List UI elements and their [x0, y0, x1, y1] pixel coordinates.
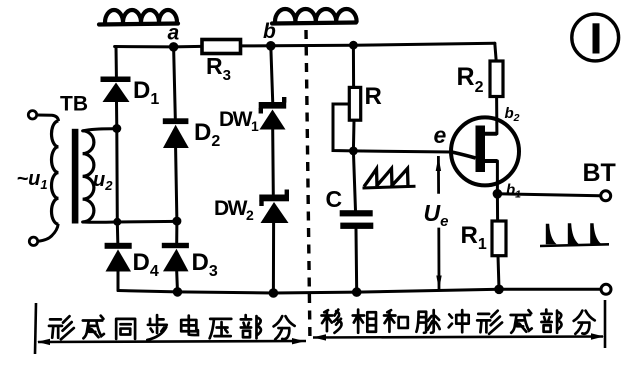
zener DW2	[214, 190, 289, 224]
BT terminal	[583, 159, 616, 201]
svg-text:b2: b2	[505, 105, 520, 124]
wire secondary top to column	[83, 129, 117, 131]
resistor R	[349, 83, 382, 120]
sawtooth waveform	[364, 169, 408, 187]
terminal bottom-left	[29, 237, 37, 245]
svg-text:R: R	[365, 83, 382, 110]
svg-text:R3: R3	[206, 53, 231, 84]
wire R wiper bracket	[333, 104, 353, 151]
wire D1 to junction	[115, 102, 118, 129]
label right section (Chinese)	[322, 310, 595, 334]
wire emitter horizontal	[353, 151, 451, 152]
diode D4	[105, 243, 159, 280]
terminal top-left	[28, 111, 36, 119]
section arrowheads	[37, 333, 604, 345]
wire R1 to rail	[498, 256, 499, 290]
wire bottom rail	[118, 289, 600, 293]
svg-text:b: b	[263, 20, 276, 43]
svg-text:C: C	[326, 186, 343, 212]
svg-text:R2: R2	[457, 63, 484, 96]
junction secondary-top	[112, 124, 121, 133]
node b	[266, 41, 276, 51]
primary winding	[51, 121, 58, 224]
junction emitter node	[349, 147, 358, 156]
wire left drop to D1	[115, 47, 118, 77]
wire R2 to b2	[495, 97, 498, 134]
wire a down to D2	[174, 47, 176, 118]
label left section (Chinese)	[49, 315, 295, 340]
svg-text:DW1: DW1	[219, 108, 259, 134]
diode D2	[163, 118, 221, 150]
wire terminal to primary bottom	[38, 224, 58, 241]
wire b1 to BT terminal	[497, 194, 600, 196]
node a	[169, 42, 179, 52]
wire secondary bottom to D3 junction	[83, 220, 177, 224]
core bar	[72, 129, 79, 224]
terminal bottom-right	[601, 284, 611, 294]
transformer TB	[17, 93, 114, 246]
resistor R3	[202, 40, 241, 85]
svg-text:u2: u2	[93, 169, 113, 193]
secondary winding	[83, 131, 94, 222]
capacitor C	[326, 186, 374, 229]
junction b1	[493, 189, 503, 199]
inductor coil top-left	[99, 10, 178, 25]
junction R-node top	[349, 41, 358, 50]
wire b down to DW1	[271, 46, 273, 102]
section arrows bottom	[35, 300, 605, 354]
wire D4 bottom to rail	[117, 272, 120, 291]
wire R2 drop	[495, 43, 496, 61]
svg-text:e: e	[434, 122, 447, 148]
wire DW2 to rail	[272, 223, 275, 293]
diode D1	[101, 77, 160, 109]
junction rail C	[352, 287, 362, 297]
wire top horizontal rail	[115, 43, 495, 47]
arrow line left section	[38, 341, 306, 342]
junction rail D3	[173, 287, 183, 297]
Ue arrow	[424, 156, 449, 290]
wire R node drop	[352, 45, 355, 87]
svg-text:D1: D1	[133, 77, 159, 108]
svg-text:a: a	[168, 22, 180, 45]
pulse waveform	[540, 223, 609, 247]
arrow line right section	[313, 337, 603, 338]
wire R bottom to emitter node	[352, 121, 356, 151]
wire junction to D3	[175, 221, 178, 242]
svg-text:D2: D2	[194, 119, 220, 150]
wire D3 to rail	[175, 271, 179, 292]
diode D3	[162, 243, 218, 280]
svg-text:D3: D3	[192, 249, 218, 280]
svg-text:R1: R1	[461, 222, 487, 253]
svg-text:Ue: Ue	[424, 200, 449, 230]
zener DW1	[219, 97, 286, 134]
junction rail R1	[494, 285, 504, 295]
svg-text:D4: D4	[133, 249, 159, 280]
wire DW1 to DW2	[271, 130, 275, 195]
unijunction transistor U1	[434, 105, 522, 201]
junction secondary-bottom cross	[113, 218, 121, 226]
wire b1 to R1	[496, 161, 499, 221]
junction rail DW2	[269, 288, 279, 298]
svg-text:b1: b1	[506, 182, 521, 201]
tick left	[35, 303, 36, 354]
wire C drop	[353, 151, 356, 292]
wire terminal to primary	[37, 115, 59, 121]
junction D2-D3	[172, 217, 181, 226]
wire D2 to junction	[176, 148, 177, 221]
svg-text:~u1: ~u1	[17, 168, 48, 192]
svg-text:BT: BT	[583, 159, 616, 187]
resistor R2	[457, 61, 504, 97]
inductor coil top-right	[272, 9, 357, 24]
tick right	[604, 300, 607, 348]
dashed divider	[306, 30, 310, 343]
svg-text:TB: TB	[60, 93, 88, 116]
resistor R1	[461, 221, 507, 256]
wire junction down through cross to D4	[117, 129, 118, 243]
svg-text:DW2: DW2	[214, 197, 254, 223]
figure number circled 1	[572, 14, 619, 61]
